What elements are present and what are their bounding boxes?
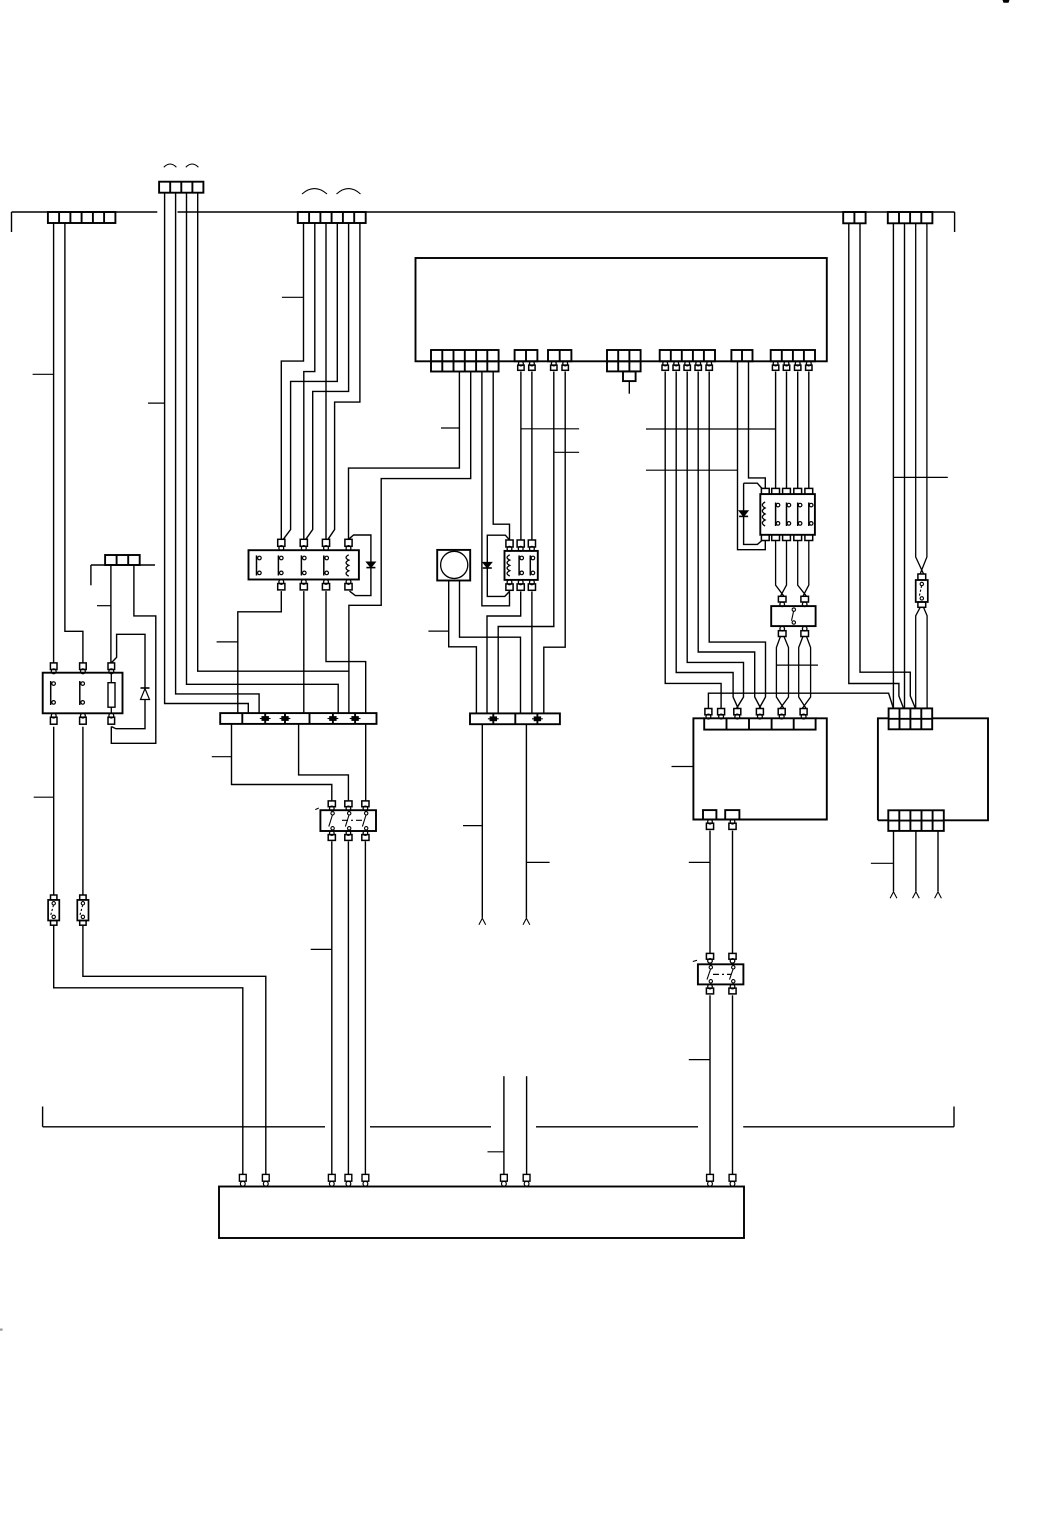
SW3 top pin bbox=[729, 953, 736, 959]
bottom harness box bbox=[219, 1187, 744, 1239]
pin G7-2 bbox=[784, 361, 789, 366]
wire J2 open end 2 bbox=[525, 724, 527, 918]
switch SW1 body bbox=[320, 810, 376, 831]
diode D3 branch (R2 pin1) bbox=[487, 535, 509, 562]
relay R3 top pin bbox=[805, 488, 813, 494]
SW3 bottom pin bbox=[708, 984, 713, 989]
wire M1-1 to J2 bbox=[449, 581, 477, 714]
J3 pin bbox=[718, 709, 725, 715]
relay R1 bottom pin bbox=[301, 580, 306, 585]
ECU connector group G3 (2 cells) bbox=[548, 350, 571, 361]
J3 pin bbox=[734, 709, 741, 715]
relay R1 bottom pin bbox=[324, 580, 329, 585]
wire G2-2 to R2 pin3 bbox=[531, 372, 533, 541]
pin G5-1 bbox=[663, 361, 668, 366]
relay R1 bottom pin bbox=[346, 580, 351, 585]
bottom box pin bbox=[239, 1174, 246, 1181]
wire connF-3 loop to R4 pin3 bottom bbox=[111, 565, 156, 743]
switch SW2 body bbox=[771, 606, 815, 626]
junction marks on J2 bbox=[490, 716, 497, 721]
wire R2 pin3-bottom to J2 bbox=[531, 591, 533, 713]
diode D2 lower branch bbox=[350, 568, 371, 596]
wire G1-6 to R2 pin1 top bbox=[493, 372, 509, 541]
relay R4 top pin bbox=[108, 663, 115, 670]
wire connB-2 to junction J1 bbox=[176, 193, 260, 713]
wire connC-1 to R1 pin1 bbox=[281, 223, 303, 539]
component M1 (circle in square) bbox=[437, 550, 470, 581]
ECU main box U1 bbox=[416, 258, 827, 361]
J3 pin bbox=[756, 709, 763, 715]
relay R3 bottom pin bbox=[805, 535, 813, 541]
wire G5-1 to J3 pin2 bbox=[665, 372, 721, 709]
stub crossing G5/G6 wires bbox=[646, 428, 776, 430]
wire R1 pin3-bottom to J1 bbox=[326, 591, 366, 713]
tick on wire bbox=[463, 825, 482, 827]
stub on wire G3-1 bbox=[554, 451, 579, 453]
pin G2-2 bbox=[530, 361, 535, 366]
SW3 actuator tick bbox=[693, 960, 697, 961]
box B2 (far right load box) bbox=[878, 718, 988, 820]
ground pigtail box bbox=[623, 371, 636, 381]
relay R2 top pin bbox=[506, 540, 513, 547]
tick on wire bbox=[212, 756, 232, 758]
wire connC-3 to R1 pin3 bbox=[325, 223, 327, 539]
wire top harness rail bbox=[12, 212, 955, 232]
wire J1 to SW1 pole2 bbox=[299, 724, 349, 801]
tick on wire G1-3 bbox=[441, 427, 459, 429]
wire G1-5 to R2 pin1 bottom bbox=[482, 372, 510, 606]
wire R4 pin1 to breaker CB1 bbox=[53, 727, 55, 895]
SW1 top pin bbox=[328, 801, 335, 807]
relay R1 contact 2 bbox=[277, 555, 279, 575]
breaker CB3 bbox=[918, 574, 926, 580]
wire link J3-pin1 to box2 col1 bbox=[708, 693, 893, 708]
twisted pair R3 sw1/sw2 to SW2 bbox=[776, 541, 787, 597]
wire connF-1 to R4 pin3 bbox=[110, 565, 112, 663]
pin G5-2 bbox=[674, 361, 679, 366]
relay R1 top pin bbox=[322, 539, 329, 546]
SW2 bottom pin 2 bbox=[802, 626, 807, 631]
wire connB-4 joins net to J1 bbox=[198, 193, 349, 672]
twisted-pair arcs above connector B bbox=[164, 164, 177, 167]
tick on wire bbox=[488, 1151, 504, 1153]
relay R2 contact 1 bbox=[518, 555, 520, 575]
bottom box pin bbox=[729, 1174, 736, 1181]
bottom box pin bbox=[262, 1174, 269, 1181]
diode D3 lower branch bbox=[487, 568, 509, 596]
wire G5-4 to J3 pin4 bbox=[698, 372, 761, 709]
box B1 bottom pin 2 bbox=[730, 819, 735, 824]
wire connD-2 to box2 col3 bbox=[860, 223, 915, 708]
relay R3 contact bbox=[786, 503, 788, 527]
wire G5-2 to J3 pin3 bbox=[676, 372, 738, 709]
SW3 blade bbox=[709, 966, 712, 969]
twisted pair SW2 to J3 pin6 bbox=[799, 637, 811, 709]
SW1 top pin bbox=[362, 801, 369, 807]
wire CB1 to bottom box pin bbox=[54, 925, 243, 1174]
SW1 bottom pin bbox=[330, 831, 335, 836]
relay R2 body bbox=[505, 551, 538, 580]
wire B1 to SW3 pole1 bbox=[709, 831, 711, 954]
stub crossing connE wires bbox=[893, 476, 947, 478]
wire SW3 pole2 to bottom box bbox=[732, 995, 734, 1174]
SW3 blade bbox=[732, 966, 735, 969]
SW2 top pin 1 bbox=[778, 596, 786, 602]
stub ending at G6-1 wire bbox=[646, 469, 738, 471]
J3 pin bbox=[778, 709, 785, 715]
pin G7-1 bbox=[773, 361, 778, 366]
diode D3 bbox=[483, 562, 492, 568]
relay R1 coil bbox=[346, 555, 349, 576]
wire connC-5 to R1 pin2 (diagonal) bbox=[306, 223, 349, 539]
relay R4 body bbox=[43, 673, 123, 714]
wire G5-5 to J3 pin4 bbox=[709, 372, 765, 709]
relay R3 top pin bbox=[794, 488, 802, 494]
tick across twisted pair bbox=[776, 664, 818, 666]
connector A (6-pin, top left) bbox=[48, 212, 116, 223]
switch SW3 body bbox=[698, 964, 744, 984]
tick on wire M1-1 bbox=[428, 630, 448, 632]
relay R4 contact 2 bbox=[79, 681, 81, 705]
junction strip on box B2 top bbox=[889, 708, 933, 729]
relay R2 top pin bbox=[517, 540, 524, 547]
wire connC-6 to R1 pin3 (diagonal) bbox=[328, 223, 360, 539]
wire G6-2 to R3 pin1 top bbox=[749, 361, 766, 488]
wire SW3 pole1 to bottom box bbox=[709, 995, 711, 1174]
tick on wire connB-1 bbox=[148, 402, 165, 404]
relay R2 coil bbox=[507, 555, 510, 576]
wire G2-1 to R2 pin2 bbox=[520, 372, 522, 541]
connector C (6-pin) bbox=[298, 212, 366, 223]
wire R1 pin1-bottom to J1 bbox=[238, 591, 281, 713]
stub wire left of connector F bbox=[90, 565, 92, 585]
junction marks on J1 bbox=[262, 716, 269, 721]
ECU connector group G4 (3x2 cells, ground pigtail) bbox=[607, 350, 641, 371]
relay R2 contact 2 bbox=[529, 555, 531, 575]
twisted pair CB3 to box2 strip bbox=[916, 607, 927, 708]
relay R3 bottom pin bbox=[783, 535, 791, 541]
ground stub wire bbox=[628, 381, 630, 394]
relay R2 bottom pin bbox=[507, 580, 512, 585]
SW3 bottom pin bbox=[730, 984, 735, 989]
J3 pin bbox=[800, 709, 807, 715]
SW1 bottom pin bbox=[346, 831, 351, 836]
bottom box pin bbox=[345, 1174, 352, 1181]
relay R2 bottom pin bbox=[518, 580, 523, 585]
relay R4 top pin bbox=[80, 663, 87, 670]
relay R2 top pin bbox=[528, 540, 535, 547]
diode D1 lower branch bbox=[111, 700, 145, 729]
wire J1 to SW1 pole3 bbox=[365, 724, 367, 801]
pin G5-5 bbox=[707, 361, 712, 366]
J3 pin bbox=[705, 709, 712, 715]
breaker CB2 bbox=[80, 895, 86, 900]
relay R1 body bbox=[249, 550, 359, 579]
relay R3 contact bbox=[797, 503, 799, 527]
wire G5-3 to J3 pin3 bbox=[687, 372, 743, 709]
wire G1-4 outer loop to J1 bbox=[349, 372, 471, 714]
connector B (4-pin, above rail) bbox=[159, 182, 203, 193]
tick on wire bbox=[871, 862, 894, 864]
relay R1 top pin bbox=[345, 539, 352, 546]
tick on wire bbox=[689, 1059, 710, 1061]
relay R3 bottom pin bbox=[761, 535, 769, 541]
wire B2 out 1 (open end) bbox=[893, 831, 895, 891]
box B1 bottom pin 1 bbox=[708, 819, 713, 824]
wire bottom harness rail bbox=[43, 1107, 954, 1127]
relay R4 bottom pin bbox=[81, 713, 86, 718]
wire connA-1 to relay R4 pin1 bbox=[53, 223, 55, 663]
connector D (2-pin, top right) bbox=[843, 212, 865, 223]
SW2 bottom pin 1 bbox=[780, 626, 785, 631]
pin G7-4 bbox=[806, 361, 811, 366]
tick on box B1 left edge bbox=[672, 766, 694, 768]
relay R3 contact bbox=[808, 503, 810, 527]
wire M1-2 to J2 bbox=[460, 581, 521, 714]
twisted pair SW2 to J3 pin5 bbox=[776, 637, 788, 709]
relay R3 top pin bbox=[783, 488, 791, 494]
pin G5-4 bbox=[696, 361, 701, 366]
bottom box pin bbox=[328, 1174, 335, 1181]
SW1 blade bbox=[365, 812, 368, 815]
diode D4 lower branch bbox=[744, 516, 762, 544]
box B1 bottom cell 2 bbox=[725, 810, 739, 819]
diode D1 (hollow, cathode up) bbox=[141, 687, 150, 689]
diode D4 bbox=[739, 511, 748, 517]
wire connB-1 to junction J1 bbox=[165, 193, 249, 713]
relay R1 top pin bbox=[278, 539, 285, 546]
wire stub to bottom box pin 7 bbox=[526, 1076, 528, 1174]
relay R4 resistor bbox=[108, 683, 115, 708]
wire SW1 pole1 to bottom box bbox=[331, 841, 333, 1174]
relay R3 bottom pin bbox=[794, 535, 802, 541]
SW1 bottom pin bbox=[363, 831, 368, 836]
junction strip J3 on box1 bbox=[704, 718, 815, 729]
wire G6-1 to R3 pin1 bottom (outer loop) bbox=[738, 361, 766, 549]
wire connD-1 to box2 col2 bbox=[849, 223, 904, 708]
bottom box pin bbox=[362, 1174, 369, 1181]
diode D2 branch (R1 pin4) bbox=[349, 535, 371, 562]
pin G5-3 bbox=[685, 361, 690, 366]
diode D2 bbox=[366, 562, 375, 568]
relay R4 top pin bbox=[50, 663, 57, 670]
wire G3-1 to junction J2 bbox=[498, 372, 554, 714]
relay R4 bottom pin bbox=[51, 713, 56, 718]
pin G3-1 bbox=[551, 361, 556, 366]
box B1 (right load box) bbox=[693, 718, 826, 819]
tick on wire bbox=[689, 861, 710, 863]
bottom box pin bbox=[523, 1174, 530, 1181]
SW1 actuator tick bbox=[315, 808, 319, 810]
relay R3 bottom pin bbox=[772, 535, 780, 541]
bottom box pin bbox=[501, 1174, 508, 1181]
relay R3 body bbox=[760, 494, 815, 535]
pin G2-1 bbox=[519, 361, 524, 366]
diode D1 branch (R4 pin3) bbox=[111, 634, 145, 688]
relay R2 bottom pin bbox=[530, 580, 535, 585]
SW2 top pin 2 bbox=[801, 596, 809, 602]
ink blob top edge bbox=[1003, 0, 1010, 3]
relay R1 contact 3 bbox=[300, 555, 302, 575]
relay R3 top pin bbox=[761, 488, 769, 494]
wire connB-3 to junction J1 bbox=[187, 193, 339, 713]
connector F (3-pin) bbox=[91, 564, 155, 566]
pin G7-3 bbox=[795, 361, 800, 366]
tick on wire connF-1 bbox=[97, 605, 111, 607]
wire B1 to SW3 pole2 bbox=[732, 831, 734, 954]
wire SW1 pole2 to bottom box bbox=[347, 841, 349, 1174]
wire J1 to SW1 pole1 bbox=[232, 724, 332, 801]
pin G3-2 bbox=[563, 361, 568, 366]
diode D4 branch (R3 pin1) bbox=[744, 483, 762, 511]
SW1 top pin bbox=[345, 801, 352, 807]
wire connE-1 to box2 bbox=[892, 223, 894, 708]
wire G1-3 to R1 pin4 bbox=[349, 372, 460, 540]
relay R1 contact 1 bbox=[256, 555, 258, 575]
wire connC-2 to R1 pin2 bbox=[304, 223, 315, 539]
tick on wire connA-1 bbox=[33, 373, 54, 375]
SW3 top pin bbox=[706, 953, 713, 959]
relay R4 bottom pin bbox=[109, 713, 114, 718]
wire stub to bottom box pin 6 bbox=[503, 1076, 505, 1174]
wire SW1 pole3 to bottom box bbox=[364, 841, 366, 1174]
twisted pair connE-3/4 to breaker CB3 bbox=[916, 223, 927, 574]
relay R3 contact bbox=[775, 503, 777, 527]
tick on wire bbox=[34, 796, 54, 798]
ECU connector group G7 (4 cells) bbox=[771, 350, 815, 361]
connector E (4-pin, top right) bbox=[888, 212, 933, 223]
stub on wire G2-1 bbox=[521, 428, 579, 430]
junction strip on box B2 bottom bbox=[888, 810, 944, 831]
wire R1 pin2-bottom to J1 bbox=[303, 591, 305, 713]
wire B2 out 3 (open end) bbox=[937, 831, 939, 891]
relay R1 contact 4 bbox=[323, 555, 325, 575]
wire B2 out 2 (open end) bbox=[915, 831, 917, 891]
relay R1 bottom pin bbox=[279, 580, 284, 585]
tick on wire bbox=[311, 948, 332, 950]
wire connA-2 to relay R4 pin2 bbox=[65, 223, 83, 663]
faint dot left edge bbox=[0, 1329, 3, 1331]
SW3 gang link (dash-dot) bbox=[713, 973, 731, 975]
wire R4 pin2 to breaker CB2 bbox=[82, 727, 84, 895]
tick on wire bbox=[526, 861, 549, 863]
SW1 blade bbox=[348, 812, 351, 815]
ECU connector group G5 (5 cells) bbox=[660, 350, 715, 361]
ECU connector group G1 (6x2 cells) bbox=[431, 350, 499, 372]
SW1 blade bbox=[331, 812, 334, 815]
bottom box pin bbox=[707, 1174, 714, 1181]
tick on wire bbox=[217, 641, 238, 643]
wire R2 pin2-bottom to J2 bbox=[487, 591, 521, 713]
wires G7 to R3 switch pins bbox=[776, 372, 809, 489]
wire connE-2 to box2 bbox=[904, 223, 906, 708]
breaker CB1 bbox=[51, 895, 57, 900]
box B1 bottom cell 1 bbox=[703, 810, 716, 819]
relay R1 top pin bbox=[300, 539, 307, 546]
wire connC-4 to R1 pin1 (diagonal) bbox=[283, 223, 337, 539]
wire CB2 to bottom box pin bbox=[83, 925, 266, 1174]
wire J2 open end 1 bbox=[481, 724, 483, 918]
ECU connector group G6 (2 cells) bbox=[731, 350, 752, 361]
wire G3-2 to junction J2 bbox=[544, 372, 565, 714]
tick on wire connC-1 bbox=[282, 296, 304, 298]
SW2 blade bbox=[792, 608, 795, 611]
relay R4 contact 1 bbox=[50, 681, 52, 705]
ECU connector group G2 (2 cells) bbox=[515, 350, 538, 361]
relay R3 top pin bbox=[772, 488, 780, 494]
relay R3 coil bbox=[762, 502, 765, 526]
twisted-pair arcs above connector C bbox=[302, 189, 327, 194]
SW1 gang link (dash-dot) bbox=[342, 819, 365, 821]
junction strip J2 bbox=[470, 713, 560, 724]
junction strip J1 bbox=[220, 713, 376, 724]
